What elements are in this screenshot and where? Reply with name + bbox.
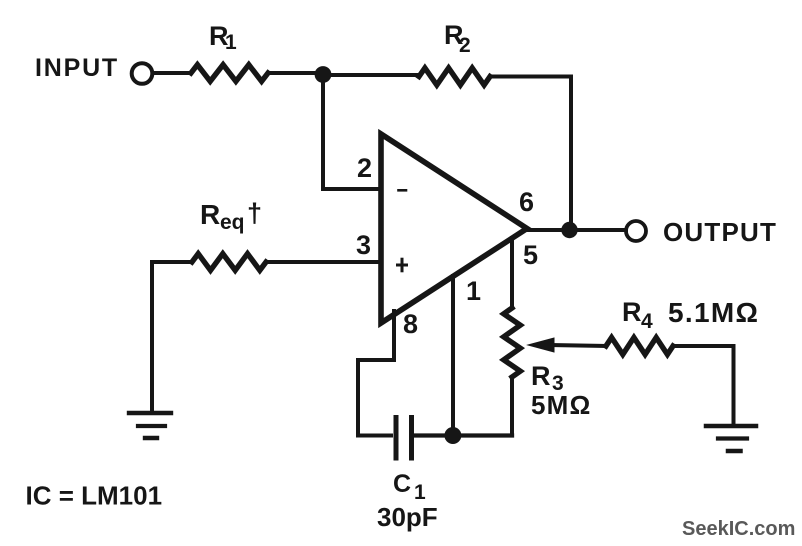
svg-text:eq: eq	[220, 211, 245, 234]
svg-text:†: †	[247, 198, 262, 228]
svg-text:2: 2	[459, 34, 471, 57]
svg-text:R: R	[200, 199, 220, 230]
svg-text:SeekIC.com: SeekIC.com	[682, 518, 795, 540]
svg-text:6: 6	[519, 187, 534, 217]
svg-text:OUTPUT: OUTPUT	[663, 217, 777, 247]
svg-text:R: R	[622, 297, 642, 327]
svg-text:R: R	[531, 361, 551, 391]
svg-text:1: 1	[414, 481, 426, 504]
svg-text:5: 5	[523, 240, 538, 270]
svg-text:INPUT: INPUT	[35, 54, 119, 82]
svg-text:IC = LM101: IC = LM101	[26, 481, 163, 511]
svg-text:1: 1	[225, 31, 237, 54]
svg-text:8: 8	[403, 309, 418, 339]
svg-text:5MΩ: 5MΩ	[531, 390, 592, 420]
svg-text:4: 4	[641, 310, 653, 333]
svg-text:3: 3	[356, 230, 371, 260]
svg-text:5.1MΩ: 5.1MΩ	[668, 297, 759, 328]
svg-text:30pF: 30pF	[377, 502, 438, 532]
svg-text:C: C	[393, 470, 411, 498]
svg-text:1: 1	[466, 276, 481, 306]
svg-text:2: 2	[357, 153, 372, 183]
